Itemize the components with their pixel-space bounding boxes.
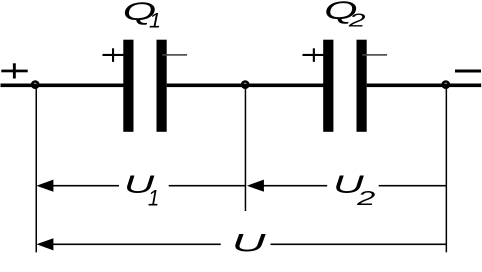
- dimension line U1: [36, 180, 245, 192]
- svg-text:U: U: [232, 229, 267, 257]
- label Q1: [123, 0, 161, 33]
- node A (left junction): [32, 82, 38, 88]
- wire (left extension line down from node A): [36, 87, 38, 252]
- wire (C2 to right terminal): [367, 84, 482, 88]
- dimension line U2: [247, 180, 446, 192]
- terminal + sign (left): [1, 63, 27, 78]
- svg-text:1: 1: [149, 9, 161, 33]
- node B (middle junction): [242, 82, 248, 88]
- wire (right extension line down from node C): [446, 87, 448, 252]
- wire (C1 to C2): [167, 84, 324, 88]
- capacitor C2: [323, 40, 367, 132]
- label Q2: [324, 0, 365, 31]
- wire (left terminal to C1): [1, 84, 124, 88]
- dimension line U: [36, 238, 446, 250]
- capacitor C1: [123, 40, 166, 132]
- label U2: [333, 171, 375, 209]
- polarity + of C2: [303, 48, 324, 62]
- label U: [232, 229, 267, 257]
- label U1: [124, 171, 159, 210]
- svg-text:2: 2: [356, 187, 375, 209]
- polarity - of C1: [162, 54, 187, 56]
- polarity - of C2: [362, 54, 387, 56]
- wire (middle extension line down from node B): [245, 87, 247, 211]
- terminal - sign (right): [455, 70, 481, 73]
- node C (right junction): [443, 82, 449, 88]
- svg-text:2: 2: [347, 10, 365, 31]
- polarity + of C1: [103, 48, 124, 62]
- svg-text:1: 1: [148, 186, 159, 211]
